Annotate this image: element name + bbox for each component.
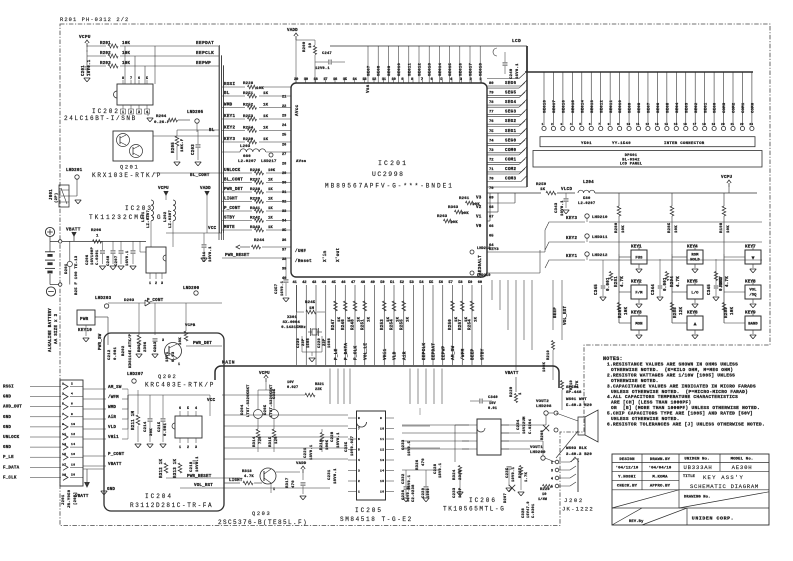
svg-text:LHD212: LHD212 [592, 254, 608, 258]
svg-text:50: 50 [380, 281, 384, 285]
svg-text:R307: R307 [138, 341, 142, 352]
svg-text:KEY2: KEY2 [224, 127, 235, 131]
svg-text:L2-0207: L2-0207 [238, 160, 257, 164]
svg-text:SEG13: SEG13 [429, 62, 433, 76]
svg-text:66: 66 [489, 225, 494, 229]
svg-text:VHi1: VHi1 [108, 435, 119, 440]
svg-text:24LC16BT-I/SNB: 24LC16BT-I/SNB [64, 115, 137, 122]
svg-text:SEG0: SEG0 [714, 102, 718, 113]
svg-text:SEG16: SEG16 [459, 62, 463, 76]
svg-text:VCPB: VCPB [185, 324, 196, 328]
svg-text:AVcc: AVcc [295, 104, 300, 116]
svg-text:1K: 1K [540, 188, 546, 192]
svg-text:AM_SW: AM_SW [451, 345, 456, 360]
svg-text:58: 58 [458, 281, 462, 285]
svg-text:SEG2: SEG2 [505, 120, 516, 124]
svg-text:47K: 47K [576, 380, 580, 388]
svg-text:C247: C247 [322, 52, 332, 56]
svg-text:VOL: VOL [749, 289, 757, 293]
svg-text:B202: B202 [122, 345, 126, 356]
svg-text:AM_SW: AM_SW [108, 386, 122, 390]
svg-text:VLD: VLD [108, 426, 116, 430]
svg-text:SEG17: SEG17 [470, 62, 474, 76]
svg-text:R246: R246 [342, 319, 346, 330]
svg-text:1: 1 [542, 123, 544, 126]
svg-text:23P: 23P [323, 338, 327, 346]
svg-text:12V0.1: 12V0.1 [315, 67, 330, 71]
svg-text:10: 10 [380, 428, 384, 431]
svg-text:7: 7 [358, 428, 360, 431]
svg-text:C340: C340 [488, 396, 498, 400]
svg-text:16: 16 [71, 453, 75, 456]
svg-text:20: 20 [721, 123, 725, 126]
svg-text:VOL_LE: VOL_LE [363, 343, 368, 360]
svg-text:56: 56 [439, 281, 443, 285]
svg-text:R259: R259 [725, 307, 729, 318]
svg-text:COM3: COM3 [505, 178, 516, 182]
svg-text:SEG14: SEG14 [439, 62, 443, 76]
svg-text:WMD: WMD [224, 104, 233, 108]
svg-text:76: 76 [489, 120, 494, 124]
svg-text:4: 4 [195, 407, 197, 411]
svg-text:VCPU: VCPU [79, 35, 91, 40]
svg-text:29: 29 [282, 172, 286, 176]
svg-text:C248: C248 [107, 255, 111, 266]
svg-text:R314: R314 [253, 436, 257, 447]
svg-text:VOUT1: VOUT1 [530, 446, 543, 450]
svg-text:TK10565MTL-G: TK10565MTL-G [443, 506, 505, 513]
svg-text:9: 9 [380, 417, 382, 420]
svg-text:2: 2 [187, 446, 189, 450]
svg-text:R251: R251 [361, 319, 365, 330]
svg-text:Q202: Q202 [158, 374, 177, 380]
svg-text:3: 3 [560, 123, 562, 126]
svg-text:APPRO.BY: APPRO.BY [650, 485, 671, 489]
svg-text:40: 40 [282, 277, 286, 281]
svg-text:8: 8 [608, 123, 610, 126]
svg-text:SEG7: SEG7 [648, 102, 652, 113]
svg-text:TITLE: TITLE [683, 475, 696, 479]
svg-text:LCD: LCD [512, 39, 521, 44]
svg-text:10V0.1: 10V0.1 [561, 200, 565, 216]
svg-text:5: 5 [62, 403, 64, 406]
svg-text:Q201: Q201 [120, 165, 139, 171]
svg-text:470: 470 [422, 458, 426, 466]
svg-text:R204: R204 [156, 115, 167, 119]
svg-text:1K: 1K [263, 127, 269, 131]
svg-text:11: 11 [380, 438, 384, 441]
svg-text:PWR_DET: PWR_DET [224, 188, 243, 192]
svg-text:6: 6 [358, 438, 360, 441]
svg-text:SEG10: SEG10 [398, 62, 402, 76]
svg-text:22: 22 [740, 123, 744, 126]
svg-text:0.14315MHz: 0.14315MHz [281, 326, 306, 330]
svg-text:30K: 30K [150, 428, 154, 436]
svg-text:4: 4 [358, 459, 360, 462]
svg-text:16V100P: 16V100P [91, 247, 95, 265]
svg-text:R326: R326 [416, 459, 420, 470]
svg-text:SEG15: SEG15 [572, 99, 576, 113]
svg-text:15: 15 [674, 123, 678, 126]
svg-text:VCC: VCC [208, 227, 217, 231]
svg-text:X'out: X'out [336, 247, 341, 262]
svg-text:1K: 1K [475, 316, 479, 322]
svg-text:25: 25 [282, 134, 286, 138]
svg-text:C343: C343 [555, 202, 559, 213]
svg-text:0.001: 0.001 [114, 346, 118, 360]
svg-text:COM1: COM1 [742, 102, 746, 113]
svg-text:R257: R257 [459, 319, 463, 330]
svg-text:10V0.1: 10V0.1 [196, 456, 200, 472]
svg-text:SEG10: SEG10 [619, 99, 623, 113]
svg-text:23P: 23P [302, 338, 306, 346]
svg-text:55: 55 [429, 281, 433, 285]
svg-text:80: 80 [489, 82, 494, 86]
svg-text:LHD311: LHD311 [592, 236, 608, 240]
svg-text:12: 12 [645, 123, 649, 126]
svg-text:8: 8 [358, 417, 360, 420]
svg-text:1/4W: 1/4W [538, 497, 548, 502]
svg-text:JK-1222: JK-1222 [562, 506, 594, 513]
svg-text:SEG1: SEG1 [505, 130, 516, 134]
svg-text:1: 1 [149, 282, 151, 286]
svg-text:C344: C344 [652, 284, 656, 295]
svg-text:FUS: FUS [635, 257, 643, 261]
svg-text:V1: V1 [476, 216, 482, 220]
svg-text:C335: C335 [345, 441, 349, 452]
svg-text:PWR: PWR [80, 318, 89, 322]
svg-text:12: 12 [71, 433, 75, 436]
svg-text:EEPCLK: EEPCLK [196, 51, 214, 56]
svg-text:SEG13: SEG13 [591, 99, 595, 113]
svg-text:C332: C332 [402, 473, 406, 484]
svg-text:WMD: WMD [108, 406, 116, 410]
svg-text:10K: 10K [727, 225, 731, 233]
svg-text:NOTES:: NOTES: [603, 356, 623, 362]
svg-text:3: 3 [138, 111, 140, 115]
svg-text:45: 45 [332, 281, 336, 285]
svg-text:7: 7 [130, 77, 132, 81]
svg-text:SEG14: SEG14 [581, 99, 585, 113]
svg-text:6: 6 [589, 123, 591, 126]
svg-text:RSSI: RSSI [224, 83, 235, 87]
svg-text:5-40-3 H20: 5-40-3 H20 [566, 404, 592, 408]
svg-text:C345: C345 [708, 284, 712, 295]
svg-text:C221: C221 [304, 447, 308, 458]
svg-text:R318: R318 [242, 470, 252, 474]
svg-text:49: 49 [371, 281, 375, 285]
svg-text:C215: C215 [158, 421, 162, 432]
svg-text:CHECK.BY: CHECK.BY [617, 485, 638, 489]
svg-text:BAND: BAND [748, 323, 758, 327]
svg-text:1608: 1608 [328, 337, 332, 348]
svg-text:0.001: 0.001 [664, 277, 668, 291]
svg-text:SEG16: SEG16 [563, 99, 567, 113]
svg-text:6.RESISTOR TOLERANCES ARE [J]: 6.RESISTOR TOLERANCES ARE [J] UNLESS OTH… [607, 421, 765, 427]
svg-text:KEY7: KEY7 [745, 246, 756, 250]
svg-text:C203: C203 [192, 144, 196, 155]
svg-text:KDS114E-RTK/P: KDS114E-RTK/P [128, 333, 133, 368]
svg-text:10K: 10K [256, 87, 264, 91]
svg-text:OR [B] (MORE THAN 1000PF) UNL: OR [B] (MORE THAN 1000PF) UNLESS OTHERWI… [611, 405, 760, 411]
svg-text:MON: MON [635, 323, 643, 327]
svg-text:5: 5 [146, 77, 148, 81]
svg-text:BL_CONT: BL_CONT [224, 179, 243, 183]
svg-text:1K: 1K [263, 138, 269, 142]
svg-text:8: 8 [71, 413, 73, 416]
svg-text:KEY1: KEY1 [631, 246, 642, 250]
svg-text:SEG2: SEG2 [695, 102, 699, 113]
svg-text:D204: D204 [241, 404, 245, 415]
svg-text:R324: R324 [453, 469, 457, 480]
svg-text:SEG18: SEG18 [480, 62, 484, 76]
svg-text:7: 7 [62, 413, 64, 416]
svg-text:31: 31 [282, 191, 286, 195]
svg-text:1: 1 [96, 235, 99, 239]
svg-text:1608: 1608 [307, 337, 311, 348]
svg-text:C-0204: C-0204 [529, 418, 533, 434]
svg-text:C228: C228 [331, 431, 335, 442]
svg-text:48: 48 [361, 281, 365, 285]
svg-text:22: 22 [282, 105, 286, 109]
svg-text:1K: 1K [406, 316, 410, 322]
svg-text:17: 17 [62, 463, 66, 466]
svg-text:KEY4: KEY4 [687, 246, 698, 250]
svg-text:/UHF: /UHF [295, 249, 306, 254]
svg-text:19: 19 [62, 473, 66, 476]
svg-text:EEPWP: EEPWP [441, 345, 446, 360]
svg-text:580: 580 [583, 197, 591, 201]
svg-text:18: 18 [71, 463, 75, 466]
svg-text:WS01 WHT: WS01 WHT [566, 398, 587, 402]
svg-text:X'in: X'in [323, 250, 328, 262]
svg-text:AA SIZE x 3: AA SIZE x 3 [55, 313, 59, 344]
svg-text:SEG8: SEG8 [638, 102, 642, 113]
svg-text:STBY: STBY [224, 217, 235, 221]
svg-text:JR-Y050: JR-Y050 [68, 489, 72, 508]
svg-text:38: 38 [282, 258, 286, 262]
svg-text:VLD: VLD [393, 351, 398, 360]
svg-text:DRAWING No.: DRAWING No. [684, 496, 711, 500]
svg-text:OTHERWISE NOTED.: OTHERWISE NOTED. [611, 378, 659, 384]
svg-text:2396: 2396 [144, 341, 148, 352]
svg-text:IC201: IC201 [378, 160, 408, 167]
svg-text:26: 26 [282, 143, 286, 147]
svg-text:IC204: IC204 [145, 493, 173, 500]
svg-text:17: 17 [693, 123, 697, 126]
svg-text:VCPU: VCPU [721, 176, 732, 180]
svg-text:C206: C206 [86, 254, 90, 265]
svg-text:UNLOCK: UNLOCK [224, 169, 241, 173]
svg-text:15: 15 [380, 480, 384, 483]
svg-text:R198: R198 [720, 222, 724, 233]
svg-text:14: 14 [664, 123, 668, 126]
svg-text:KEY1: KEY1 [224, 115, 235, 119]
svg-text:1K: 1K [268, 179, 273, 183]
svg-text:C-0301: C-0301 [532, 504, 536, 518]
svg-text:X301: X301 [287, 316, 297, 320]
svg-text:1K: 1K [268, 217, 273, 221]
svg-text:8: 8 [122, 77, 124, 81]
svg-text:R248: R248 [352, 319, 356, 330]
svg-text:BL_CONT: BL_CONT [190, 174, 210, 178]
svg-text:R363: R363 [448, 206, 459, 210]
svg-text:LND200: LND200 [183, 287, 200, 291]
svg-text:1K: 1K [263, 115, 269, 119]
svg-text:VBATT: VBATT [66, 228, 81, 233]
svg-text:23: 23 [749, 123, 753, 126]
svg-text:PWR_SW: PWR_SW [99, 333, 103, 350]
svg-text:R229: R229 [510, 386, 514, 397]
svg-text:16V0.1: 16V0.1 [281, 280, 285, 296]
svg-text:1: 1 [358, 491, 360, 494]
svg-text:L2-0207: L2-0207 [578, 202, 596, 206]
svg-text:UB333AH: UB333AH [683, 464, 712, 471]
svg-text:R244: R244 [254, 239, 265, 243]
svg-text:R210: R210 [547, 350, 551, 360]
svg-text:L201: L201 [142, 211, 146, 222]
svg-text:9: 9 [617, 123, 619, 126]
svg-text:53: 53 [410, 281, 414, 285]
svg-text:LHD219: LHD219 [477, 274, 491, 278]
svg-text:COM3: COM3 [723, 102, 727, 113]
svg-text:SEG9: SEG9 [629, 102, 633, 113]
svg-text:R247: R247 [332, 319, 336, 330]
svg-text:1K: 1K [268, 188, 273, 192]
svg-text:LHD203: LHD203 [95, 297, 112, 301]
svg-text:LHD210: LHD210 [592, 216, 608, 220]
svg-text:4.7K: 4.7K [726, 276, 730, 287]
svg-text:C212: C212 [108, 349, 112, 360]
svg-text:R211 1M: R211 1M [132, 410, 136, 430]
svg-text:COM0: COM0 [505, 149, 516, 153]
svg-text:C328: C328 [522, 507, 526, 518]
svg-text:20: 20 [71, 473, 75, 476]
svg-text:SEG0: SEG0 [505, 139, 516, 143]
svg-text:SEG7: SEG7 [368, 65, 372, 76]
svg-text:Y.HOSHI: Y.HOSHI [618, 476, 636, 480]
svg-text:'04/12/10: '04/12/10 [616, 466, 639, 471]
svg-text:R209: R209 [303, 41, 307, 52]
svg-text:0.001: 0.001 [164, 422, 168, 436]
svg-text:AUD_OUT: AUD_OUT [3, 406, 22, 410]
svg-text:R281: R281 [615, 276, 619, 287]
svg-text:SEG3: SEG3 [505, 111, 516, 115]
svg-text:EEPDAT: EEPDAT [432, 343, 437, 360]
svg-text:16V0.1: 16V0.1 [126, 250, 130, 266]
svg-text:MAIN: MAIN [222, 360, 235, 366]
svg-text:VBATT: VBATT [505, 372, 519, 376]
svg-text:KEY3: KEY3 [566, 217, 577, 221]
svg-text:28: 28 [282, 162, 286, 166]
svg-text:P_CONT: P_CONT [108, 453, 125, 457]
svg-text:R259: R259 [536, 183, 547, 187]
svg-text:C345: C345 [595, 284, 599, 295]
svg-text:36: 36 [282, 239, 286, 243]
svg-text:10: 10 [71, 423, 75, 426]
svg-text:16: 16 [683, 123, 687, 126]
svg-text:R261: R261 [459, 197, 470, 201]
svg-text:D203: D203 [124, 299, 135, 303]
svg-text:R228: R228 [243, 82, 254, 86]
svg-text:LHD208: LHD208 [536, 405, 552, 409]
svg-text:100K: 100K [326, 439, 330, 450]
svg-text:18V0.1: 18V0.1 [337, 432, 341, 448]
svg-text:P_LE: P_LE [334, 348, 339, 360]
svg-text:16V0.1: 16V0.1 [516, 63, 520, 79]
svg-text:KEY10: KEY10 [78, 329, 92, 333]
svg-text:KRC403E-RTK/P: KRC403E-RTK/P [145, 382, 215, 389]
svg-text:KEY2: KEY2 [631, 281, 642, 285]
svg-text:LND205: LND205 [187, 111, 204, 115]
svg-text:SEG9: SEG9 [388, 65, 392, 76]
svg-text:27: 27 [282, 153, 286, 157]
svg-text:MUTE: MUTE [224, 226, 235, 230]
svg-text:43: 43 [312, 281, 316, 285]
svg-text:KEY8: KEY8 [745, 281, 756, 285]
svg-text:32: 32 [282, 201, 286, 205]
svg-text:6: 6 [71, 403, 73, 406]
svg-text:SEG17: SEG17 [553, 99, 557, 113]
svg-text:R280: R280 [615, 222, 619, 233]
svg-text:LTST-S320KSKT: LTST-S320KSKT [247, 384, 251, 417]
svg-text:19: 19 [712, 123, 716, 126]
svg-text:4: 4 [570, 123, 572, 126]
svg-text:KEY5: KEY5 [687, 281, 698, 285]
svg-text:VCPU: VCPU [259, 372, 270, 376]
svg-text:1: 1 [519, 392, 523, 395]
svg-text:2: 2 [551, 123, 553, 126]
svg-text:SEG8: SEG8 [378, 65, 382, 76]
svg-text:39: 39 [282, 267, 286, 271]
svg-text:C335: C335 [273, 388, 277, 399]
svg-text:R263: R263 [437, 215, 448, 219]
svg-text:SEG3: SEG3 [685, 102, 689, 113]
svg-text:OTHERWISE NOTED. (K=KILO OHM,: OTHERWISE NOTED. (K=KILO OHM, M=MEG OHM) [611, 367, 733, 373]
svg-text:C213: C213 [154, 341, 158, 352]
svg-text:/Reset: /Reset [295, 259, 312, 264]
svg-text:46: 46 [341, 281, 345, 285]
svg-text:F/M: F/M [635, 291, 643, 296]
svg-text:AVss: AVss [296, 160, 307, 164]
svg-text:SEG5: SEG5 [666, 102, 670, 113]
svg-text:5: 5 [579, 123, 581, 126]
svg-text:10K: 10K [622, 225, 626, 233]
svg-text:J801: J801 [50, 189, 54, 200]
svg-text:SP-448: SP-448 [566, 391, 582, 395]
svg-text:KRX103E-RTK/P: KRX103E-RTK/P [92, 172, 162, 179]
svg-text:71: 71 [489, 168, 494, 172]
svg-text:R219: R219 [570, 380, 574, 390]
svg-text:0.03: 0.03 [172, 351, 176, 362]
svg-text:SEG4: SEG4 [676, 102, 680, 113]
svg-text:F_DATA: F_DATA [3, 466, 20, 470]
svg-text:UNIDEN CORP.: UNIDEN CORP. [692, 516, 734, 522]
svg-text:C2-0238: C2-0238 [412, 484, 416, 502]
svg-text:18V0.1: 18V0.1 [310, 444, 314, 460]
svg-text:30: 30 [282, 181, 286, 185]
svg-text:1K: 1K [367, 316, 371, 322]
svg-text:0.027: 0.027 [287, 386, 298, 390]
svg-text:13: 13 [380, 459, 384, 462]
svg-text:74: 74 [489, 139, 494, 143]
svg-text:VBATT: VBATT [75, 495, 89, 499]
svg-text:LHD207: LHD207 [127, 373, 144, 377]
svg-text:SEG11: SEG11 [610, 99, 614, 113]
svg-text:/WFM: /WFM [461, 348, 466, 360]
svg-text:RSSI: RSSI [3, 386, 14, 390]
svg-text:1K: 1K [263, 92, 269, 96]
